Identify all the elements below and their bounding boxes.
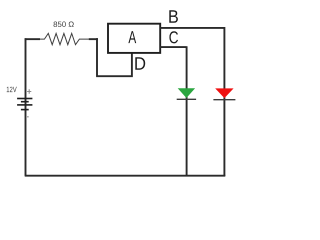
battery B1 plate long top bbox=[17, 98, 32, 100]
LED D2 cathode bar bbox=[213, 99, 235, 101]
label C bbox=[169, 31, 178, 43]
wire bottom horizontal bbox=[25, 175, 226, 177]
battery minus sign bbox=[27, 116, 29, 118]
battery value 12V bbox=[7, 87, 17, 92]
component box A bbox=[108, 24, 160, 53]
battery B1 plate long lower bbox=[17, 104, 32, 106]
label B bbox=[169, 10, 178, 23]
wire D-loop: down, right, up into box A bbox=[96, 38, 132, 77]
resistor value label bbox=[54, 22, 74, 28]
battery B1 plate short bottom bbox=[21, 109, 29, 111]
resistor R1 zigzag with thin leads bbox=[40, 33, 89, 44]
LED D1 green triangle bbox=[178, 88, 195, 98]
wire B: box to red branch bbox=[160, 27, 224, 176]
battery plus sign bbox=[27, 89, 31, 94]
LED D1 cathode bar bbox=[177, 98, 196, 100]
wire thick from resistor to corner bbox=[89, 38, 98, 40]
wire C: box to green branch bbox=[160, 46, 187, 176]
label D bbox=[135, 57, 145, 69]
label A bbox=[128, 31, 136, 43]
wire top horizontal thick from corner bbox=[25, 38, 40, 40]
battery B1 plate short bbox=[21, 101, 29, 103]
wire left vertical (battery branch) bbox=[25, 38, 27, 176]
LED D2 red triangle bbox=[215, 88, 233, 98]
